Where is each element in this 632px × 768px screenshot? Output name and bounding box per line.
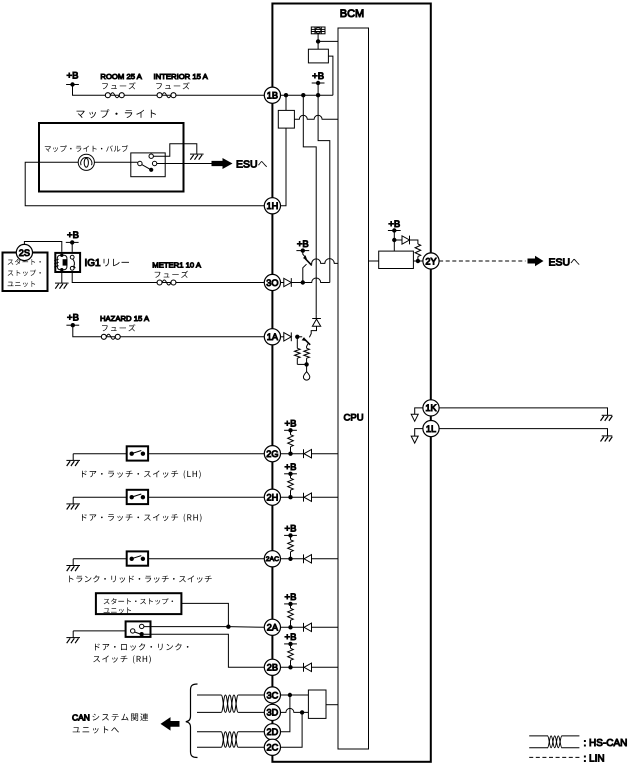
label start-stop mid line2 [104, 607, 131, 613]
wire 3C row [281, 694, 309, 696]
connector 2H [264, 489, 280, 505]
svg-text:2S: 2S [19, 248, 30, 258]
wire +B to relay contact [71, 242, 73, 252]
wire +B to 1A [73, 325, 264, 337]
wire 3D row [281, 708, 309, 712]
IG1 relay contact [70, 255, 75, 270]
map light box [39, 123, 184, 192]
node 1A [295, 335, 299, 339]
connector 2C [264, 739, 280, 755]
svg-text:3O: 3O [266, 278, 278, 288]
+B terminal (2H) [284, 462, 297, 476]
wire transceiver to CPU [326, 704, 338, 706]
+B terminal (2AC) [284, 524, 297, 538]
twisted pair (3C/3D) [221, 695, 238, 712]
wire start-stop to 2A [181, 603, 228, 626]
wire switch to 2G [148, 453, 264, 455]
wire coil to ground [61, 272, 63, 283]
svg-text:: HS-CAN: : HS-CAN [584, 738, 628, 749]
+B terminal (3O driver) [296, 239, 309, 253]
label fuse (ROOM) [102, 82, 135, 89]
CPU label [344, 413, 364, 424]
wire 1B-c down [318, 95, 330, 282]
node 2AC [288, 557, 292, 561]
connector 2AC [264, 551, 280, 567]
fuse HAZARD 15 A [101, 334, 120, 339]
svg-text:2Y: 2Y [425, 256, 436, 266]
label fuse (INTERIOR) [156, 82, 189, 89]
wire 1B to resistor box [285, 95, 287, 110]
wire twist to 2C [238, 746, 264, 748]
transistor Q2 bar [303, 338, 310, 345]
wire 1L to ground [439, 429, 607, 436]
svg-text:2AC: 2AC [266, 556, 279, 563]
resistor (2G pull-up) [288, 430, 294, 453]
fuse METER1 10 A [157, 280, 176, 285]
svg-text:+B: +B [67, 230, 79, 241]
svg-text:1L: 1L [426, 424, 436, 434]
arrow to ESU (map light) [212, 158, 233, 169]
+B terminal (battery feed, top left) [66, 71, 79, 87]
svg-text:2A: 2A [267, 623, 279, 633]
label fuse (HAZARD) [102, 324, 135, 331]
wire 2S to IG1 relay [24, 242, 61, 252]
arrow to ESU (2Y) [528, 256, 544, 266]
connector 2Y [423, 253, 439, 269]
wire Q1 base to CPU [311, 259, 338, 264]
legend HS-CAN label [584, 738, 628, 749]
wire 2C left [197, 746, 221, 748]
label HAZARD 15 A [100, 314, 150, 323]
transistor Q2 collector [307, 343, 309, 348]
svg-text:+B: +B [67, 71, 79, 82]
wire CPU to relay box [369, 260, 379, 262]
node 1B-c [316, 93, 320, 97]
wire 2D left [197, 731, 221, 733]
legend HS-CAN wires [529, 736, 579, 748]
wire 1K stub [415, 408, 423, 414]
resistor (2A pull-up) [288, 604, 294, 627]
arrow to CAN units [161, 717, 180, 731]
+B terminal (2B) [284, 632, 297, 646]
svg-text:ESU: ESU [549, 256, 571, 268]
wire switch to ESU [157, 163, 212, 165]
svg-text:BCM: BCM [340, 8, 364, 20]
wire buzzer to CPU [318, 40, 338, 42]
diode D2 (1A input) [281, 332, 292, 341]
label ROOM 25 A [100, 72, 142, 81]
svg-text:ESU: ESU [236, 159, 258, 171]
IG1 relay coil [54, 254, 67, 272]
wire 3O row [291, 278, 330, 283]
wire resistor box to 1H [281, 128, 287, 206]
connector 3C [264, 687, 280, 703]
transistor Q1 emitter [303, 251, 307, 259]
wire twist to 3C [238, 694, 264, 696]
node 2A [288, 625, 292, 629]
wire 2G row inside BCM [281, 453, 339, 455]
svg-text:+B: +B [285, 524, 297, 535]
wire 1K to ground [439, 408, 607, 415]
connector 3O [264, 274, 280, 290]
diode (2A) [304, 623, 312, 632]
map light bulb [78, 154, 94, 170]
diode D3 (vertical) [312, 314, 321, 326]
resistor R2 [304, 348, 310, 364]
start-stop unit box (middle) [96, 593, 181, 614]
resistor R3 [415, 244, 421, 261]
start-stop unit box (left) [3, 253, 48, 292]
brace (CAN bundle) [186, 684, 198, 758]
node 2H [288, 495, 292, 499]
+B terminal (IG1 relay) [66, 230, 79, 245]
svg-text:1K: 1K [425, 403, 437, 413]
svg-text:+B: +B [285, 419, 297, 430]
node +B 2Y [392, 238, 396, 242]
resistor R1 [295, 337, 301, 365]
svg-text:+B: +B [312, 71, 324, 82]
connector 1A [264, 329, 280, 345]
label fuse (METER1) [155, 271, 188, 278]
transistor Q1 collector [303, 264, 307, 282]
svg-text:+B: +B [285, 462, 297, 473]
BCM label [340, 8, 364, 20]
node 2G [288, 452, 292, 456]
triangle marker (1L) [411, 436, 418, 443]
ground (1K) [601, 415, 613, 421]
resistor (2H pull-up) [288, 474, 294, 497]
wire relay to 3O [72, 272, 264, 283]
resistor (2AC pull-up) [288, 535, 294, 558]
svg-text:+B: +B [285, 632, 297, 643]
wire ground to switch (2A) [73, 630, 125, 632]
wire 3C to 2D [281, 695, 290, 732]
label door lock link switch line1 [95, 643, 189, 650]
wire junction to driver [317, 41, 319, 49]
svg-text:CPU: CPU [344, 413, 364, 424]
twisted pair (2D/2C) [221, 732, 238, 748]
connector 1L [423, 421, 439, 437]
trunk lid latch switch [127, 551, 148, 565]
IG1 relay box [55, 253, 80, 272]
node 3O [301, 280, 305, 284]
wire to sounder [306, 364, 308, 372]
node buzzer junction [316, 39, 320, 43]
node 2A (start-stop tap) [226, 625, 230, 629]
node 1B-b [301, 93, 305, 97]
ground (door lock link) [66, 631, 80, 643]
node 1B-a [284, 93, 288, 97]
CAN transceiver box [308, 690, 326, 718]
transistor Q2 emitter [309, 326, 316, 337]
svg-text:2C: 2C [267, 743, 279, 753]
node 3C [288, 693, 292, 697]
relay driver box (2Y) [379, 251, 414, 268]
wire 2H row inside BCM [281, 496, 339, 498]
svg-text:2G: 2G [266, 449, 278, 459]
wire +B to relay box [393, 231, 395, 252]
door lock link switch box [126, 621, 151, 637]
diode (2G) [304, 449, 312, 458]
connector 2G [264, 446, 280, 462]
wire +B to 1B [73, 85, 265, 96]
wire switch to ground [153, 144, 196, 157]
+B terminal (2G) [284, 419, 297, 433]
label INTERIOR 15 A [154, 72, 209, 81]
ground (door latch LH) [66, 454, 80, 466]
label door latch switch RH [82, 514, 202, 522]
connector 1B [264, 87, 280, 103]
ground (IG1 relay) [55, 283, 69, 289]
label start-stop unit line3 [8, 281, 35, 287]
wire relay to 2Y [413, 260, 423, 262]
wire 1L stub [415, 429, 423, 437]
map light switch box [131, 153, 165, 177]
wire 3C left [197, 694, 221, 696]
svg-text:: LIN: : LIN [584, 754, 605, 765]
wire resistor box to CPU [294, 115, 338, 119]
+B terminal (2Y) [388, 219, 401, 233]
wire D4 to resistor [410, 240, 418, 244]
svg-text:1A: 1A [267, 332, 279, 342]
svg-text:IG1: IG1 [85, 258, 102, 269]
label CAN units line2 [73, 726, 119, 733]
wire bulb to 1H [25, 162, 264, 206]
label start-stop mid line1 [104, 598, 173, 605]
diode (2H) [304, 493, 312, 502]
label start-stop unit line1 [8, 259, 41, 265]
label CAN units line1 [72, 712, 148, 722]
wire 2A row inside BCM [281, 626, 339, 628]
wire ground to switch (2AC) [73, 558, 127, 560]
label ESU (map light) [236, 159, 267, 171]
svg-text:2H: 2H [267, 493, 279, 503]
+B terminal (hazard) [66, 313, 79, 328]
legend LIN label [584, 754, 605, 765]
wire ground to switch (2G) [73, 453, 127, 455]
ground (trunk lid latch) [66, 559, 80, 571]
node sounder [304, 362, 308, 366]
svg-text:ROOM 25 A: ROOM 25 A [100, 72, 142, 81]
buzzer symbol [311, 27, 325, 34]
door latch switch RH [127, 490, 148, 504]
legend twisted pair [548, 736, 562, 748]
fuse ROOM 25 A [105, 93, 124, 98]
node 2B [288, 665, 292, 669]
svg-text:+B: +B [285, 592, 297, 603]
wire twist to 2D [238, 731, 264, 733]
triangle marker (1K) [411, 414, 418, 421]
wire R1 to node [297, 363, 306, 365]
map light switch [138, 154, 157, 172]
label ESU (2Y) [549, 256, 580, 268]
wire switch to 2B [144, 634, 264, 667]
node 3D [300, 710, 304, 714]
ground (map light) [190, 154, 204, 160]
svg-text:3D: 3D [267, 708, 279, 718]
svg-text:METER1 10 A: METER1 10 A [152, 261, 202, 270]
svg-text:+B: +B [67, 313, 79, 324]
ground (door latch RH) [66, 497, 80, 509]
wire bulb to switch [94, 161, 137, 163]
label door latch switch LH [82, 470, 201, 478]
label start-stop unit line2 [8, 270, 41, 276]
connector 1K [423, 400, 439, 416]
label IG1 relay [85, 258, 130, 269]
diode (2AC) [304, 554, 312, 563]
wire buzzer node [317, 34, 319, 42]
wire 1B-b down [303, 95, 316, 314]
wire switch to 2H [148, 496, 264, 498]
label trunk lid latch switch [69, 575, 212, 582]
door lock link switch [131, 624, 144, 636]
svg-text:3C: 3C [267, 690, 279, 700]
connector 1H [264, 198, 280, 214]
wire 3D to 2C [281, 712, 303, 747]
wire 3D left [197, 711, 221, 713]
wire driver output to 1B rail [328, 56, 333, 95]
label METER1 10 A [152, 261, 202, 270]
wire +B to 1B rail [317, 83, 319, 95]
svg-text:HAZARD 15 A: HAZARD 15 A [100, 314, 150, 323]
wire twist to 3D [238, 711, 264, 713]
ground (1L) [601, 436, 613, 442]
svg-text:2B: 2B [267, 663, 278, 673]
+B terminal (2A) [284, 592, 297, 606]
dashed wire 2Y to ESU [439, 260, 525, 262]
resistor (2B pull-up) [288, 644, 294, 667]
fuse INTERIOR 15 A [157, 93, 176, 98]
legend LIN dashed wire [529, 756, 579, 758]
transistor Q2 base [297, 337, 305, 341]
wire switch to 2AC [148, 558, 264, 560]
svg-text:2D: 2D [267, 727, 279, 737]
connector 2S [16, 244, 32, 260]
svg-text:1H: 1H [267, 201, 279, 211]
label map light [77, 109, 157, 118]
wire switch to 2A [144, 626, 264, 629]
connector 2B [264, 659, 280, 675]
+B terminal (1B rail) [312, 71, 325, 85]
resistor box (map light dimmer) [278, 110, 294, 128]
connector 2D [264, 724, 280, 740]
svg-text:1B: 1B [267, 91, 278, 101]
CPU box [338, 28, 369, 749]
label door lock link switch line2 [93, 655, 151, 663]
buzzer driver box [308, 49, 328, 63]
wire 1B rail [281, 94, 333, 96]
node 2Y [416, 259, 420, 263]
diode D4 [394, 236, 409, 245]
svg-text:CAN: CAN [72, 712, 90, 722]
wire ground to switch (2H) [73, 496, 127, 498]
transistor Q1 bar [305, 258, 312, 266]
label map light bulb [45, 145, 128, 152]
door latch switch LH [127, 446, 148, 460]
diode D1 (3O input) [281, 278, 292, 287]
wire 2B row inside BCM [281, 666, 339, 668]
sounder symbol [303, 372, 309, 381]
wire 2AC row inside BCM [281, 558, 339, 560]
diode (2B) [304, 663, 312, 672]
connector 3D [264, 704, 280, 720]
connector 2A [264, 619, 280, 635]
svg-text:+B: +B [297, 239, 309, 250]
svg-text:INTERIOR 15 A: INTERIOR 15 A [154, 72, 209, 81]
BCM box [272, 4, 430, 762]
